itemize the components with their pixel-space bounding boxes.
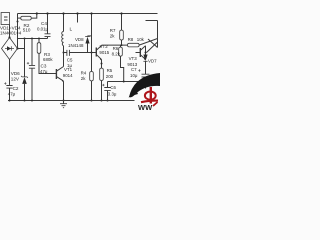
resistor R4: [91, 53, 93, 72]
wire rail to base node: [91, 14, 93, 53]
node R7 bottom: [121, 44, 123, 46]
node bus C3: [31, 38, 33, 40]
capacitor C6: [107, 82, 109, 88]
transistor VT2: [95, 48, 97, 57]
svg-text:VT2: VT2: [100, 44, 109, 49]
bridge rectifier VD1-VD4: [2, 38, 18, 60]
node collector branch: [63, 52, 65, 54]
wire plug to bridge top: [9, 25, 11, 38]
node C3 rail: [31, 100, 33, 102]
svg-text:C4: C4: [41, 21, 47, 26]
svg-text:2k: 2k: [81, 76, 86, 81]
resistor R8: [128, 43, 140, 47]
svg-text:VT1: VT1: [64, 67, 73, 72]
resistor R3: [38, 39, 40, 43]
node C7 bottom: [145, 81, 147, 83]
node VD6 rail: [24, 100, 26, 102]
node R6 path bottom: [123, 81, 125, 83]
svg-text:1N4148: 1N4148: [68, 43, 84, 48]
svg-text:C5: C5: [67, 57, 73, 62]
svg-text:8.2k: 8.2k: [112, 52, 121, 57]
node bridge top: [8, 36, 10, 38]
node R2 right on rail: [36, 12, 38, 14]
svg-text:10k: 10k: [137, 37, 145, 42]
wire lower bus: [108, 81, 146, 83]
wire right edge vertical: [157, 21, 159, 48]
resistor R6: [120, 45, 122, 47]
node R7 rail: [120, 12, 122, 14]
wire left vertical from rail to bridge output: [17, 14, 19, 49]
node base junction: [91, 52, 93, 54]
node on left vertical: [17, 21, 19, 23]
zener diode VD6: [24, 39, 26, 77]
svg-text:C6: C6: [110, 85, 116, 90]
svg-text:200: 200: [106, 74, 114, 79]
ground: [63, 101, 65, 104]
svg-text:680k: 680k: [43, 57, 53, 62]
svg-text:3.3μ: 3.3μ: [108, 91, 117, 96]
wire bridge left leg down: [9, 60, 11, 85]
node bus VD6: [24, 38, 26, 40]
svg-text:0.01μ: 0.01μ: [37, 27, 49, 32]
watermark logo bug: [141, 87, 158, 106]
svg-text:VD7: VD7: [148, 58, 157, 63]
svg-text:R8: R8: [128, 37, 134, 42]
capacitor C4: [47, 14, 49, 34]
capacitor C7: [142, 74, 150, 77]
svg-text:10μ: 10μ: [130, 73, 138, 78]
svg-text:C2: C2: [13, 86, 19, 91]
node stub: [76, 12, 78, 14]
svg-text:C7: C7: [131, 67, 137, 72]
node bridge plus output: [16, 47, 18, 49]
node L rail: [62, 12, 64, 14]
node C6 rail: [107, 100, 109, 102]
svg-text:1N4001×4: 1N4001×4: [0, 31, 22, 36]
node rail x91: [90, 12, 92, 14]
capacitor C3: [31, 39, 33, 66]
diode VD7: [145, 46, 147, 55]
resistor R7: [121, 14, 123, 31]
inductor L: [63, 14, 65, 32]
transistor VT1: [55, 69, 57, 79]
wire bottom ground rail: [8, 100, 135, 102]
svg-text:R5: R5: [107, 68, 113, 73]
resistor R5: [101, 60, 103, 69]
svg-text:9015: 9015: [99, 50, 109, 55]
svg-text:12V: 12V: [11, 77, 20, 82]
svg-text:VD6: VD6: [11, 71, 20, 76]
node R4 rail: [91, 100, 93, 102]
wire VT2 collector bus: [102, 44, 128, 46]
node C2 rail: [9, 100, 11, 102]
transistor VT3: [139, 48, 141, 57]
svg-text:C3: C3: [41, 63, 47, 68]
svg-text:2k: 2k: [110, 34, 115, 39]
diode VD8: [88, 35, 92, 37]
watermark swoosh tip: [129, 90, 139, 98]
wire rail stub: [77, 14, 79, 23]
wire top positive rail: [18, 13, 158, 15]
wire output diagonal B: [147, 42, 158, 53]
svg-text:WW: WW: [138, 103, 153, 110]
watermark swoosh: [129, 73, 160, 97]
capacitor C2: [6, 86, 12, 89]
svg-text:R7: R7: [110, 28, 116, 33]
svg-text:VD8: VD8: [75, 37, 84, 42]
wire upper bus: [18, 38, 48, 40]
capacitor C5: [64, 52, 67, 54]
node C4 rail: [46, 12, 48, 14]
svg-text:VT3: VT3: [129, 56, 138, 61]
svg-text:9014: 9014: [63, 73, 73, 78]
wire output diagonal C: [148, 39, 158, 48]
wire output diagonal A: [139, 39, 157, 46]
node R5 rail: [101, 100, 103, 102]
svg-text:R6: R6: [113, 46, 119, 51]
svg-text:47μ: 47μ: [8, 91, 16, 96]
svg-text:R4: R4: [81, 71, 87, 76]
AC input plug X1: [1, 13, 9, 25]
svg-text:510: 510: [23, 28, 31, 33]
svg-text:L: L: [70, 27, 73, 33]
node VT1 emitter rail: [63, 100, 65, 102]
wire bridge output to VD6 column: [18, 48, 25, 50]
wire top-right stub to output: [146, 20, 158, 22]
node bus R3: [38, 38, 40, 40]
resistor R2: [18, 17, 21, 19]
svg-text:47μ: 47μ: [40, 69, 48, 74]
